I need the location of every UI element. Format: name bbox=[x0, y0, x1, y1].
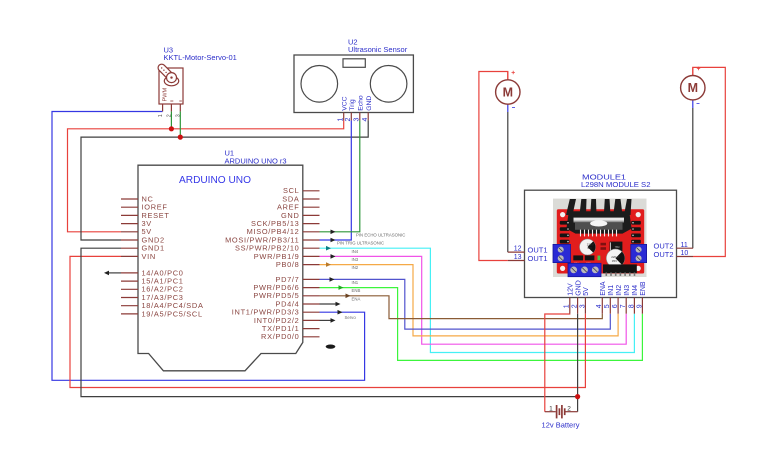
pin GND (Arduino right) bbox=[303, 214, 320, 216]
decorative? small black ellipse marker below RX pin bbox=[326, 345, 336, 349]
svg-text:L298N MODULE S2: L298N MODULE S2 bbox=[581, 180, 651, 189]
pin 2 GND (module bottom) bbox=[577, 298, 579, 314]
wire IN3 magenta: Arduino PB1/9 to module pin7 bbox=[320, 256, 627, 344]
pin GND1 (Arduino left) bbox=[121, 247, 138, 249]
svg-text:2: 2 bbox=[167, 114, 173, 117]
pin 4 ENA (module bottom) bbox=[601, 298, 603, 314]
pin 5 IN1 (module bottom) bbox=[609, 298, 611, 314]
motor M left bbox=[507, 72, 509, 81]
pin 7 IN3 (module bottom) bbox=[625, 298, 627, 314]
svg-text:19/A5/PC5/SCL: 19/A5/PC5/SCL bbox=[142, 309, 203, 318]
svg-text:3: 3 bbox=[579, 304, 586, 308]
servo U3 body bbox=[159, 68, 183, 104]
svg-text:IN1: IN1 bbox=[352, 280, 359, 285]
svg-text:PIN TRIG ULTRASONIC: PIN TRIG ULTRASONIC bbox=[337, 241, 384, 246]
wire left motor red: motor+ loop to module pin13 OUT1 bbox=[479, 72, 508, 261]
pin RESET (Arduino left) bbox=[121, 214, 138, 216]
pin 13 OUT1 (module left) bbox=[508, 260, 525, 262]
svg-text:1: 1 bbox=[564, 304, 571, 308]
svg-text:12V: 12V bbox=[568, 283, 575, 296]
svg-text:2: 2 bbox=[567, 406, 571, 413]
small IC black bbox=[610, 242, 623, 252]
pin 10 OUT2 (module right) bbox=[677, 256, 694, 258]
svg-text:PB0/8: PB0/8 bbox=[276, 260, 300, 269]
svg-text:PWM: PWM bbox=[163, 87, 169, 101]
net arrow + label ENA bbox=[346, 294, 351, 299]
svg-text:Ultrasonic Sensor: Ultrasonic Sensor bbox=[348, 45, 408, 54]
pin VIN (Arduino left) bbox=[121, 255, 138, 257]
L298N PCB photo: gray plate bbox=[553, 199, 647, 277]
svg-text:OUT2: OUT2 bbox=[653, 250, 673, 259]
pin 9 ENB (module bottom) bbox=[641, 298, 643, 314]
wire Servo net blue: Arduino PD3 around bottom-left to servo pin 1 bbox=[52, 112, 365, 381]
pin 8 IN4 (module bottom) bbox=[633, 298, 635, 314]
svg-text:8: 8 bbox=[628, 304, 635, 308]
svg-text:ENA: ENA bbox=[600, 281, 607, 296]
crystal rectangle bbox=[343, 59, 365, 68]
wire GND top rail: Ultrasonic GND to Arduino GND2 / servo pin3 bbox=[81, 120, 368, 240]
svg-text:9: 9 bbox=[636, 304, 643, 308]
pin 3 (servo) bbox=[179, 104, 181, 111]
right motor minus mark bbox=[697, 103, 700, 105]
left motor minus blue stub bbox=[507, 104, 509, 112]
wire IN4 cyan: Arduino PB2/10 to module pin8 bbox=[320, 248, 635, 352]
net arrow + label IN4 bbox=[326, 246, 331, 251]
wire Echo green: ultrasonic pin3 down to Arduino MISO/PB4/12 bbox=[320, 120, 360, 231]
bottom terminal block blue 3-screw bbox=[568, 263, 601, 276]
pin 1 (servo) bbox=[162, 104, 164, 111]
svg-text:IN4: IN4 bbox=[352, 249, 359, 254]
right resistor column bbox=[631, 221, 641, 225]
pin 3 Echo (ultrasonic) bbox=[359, 113, 361, 121]
node: battery minus junction on GND rail bbox=[575, 394, 580, 399]
svg-text:35V: 35V bbox=[612, 259, 617, 263]
svg-text:7: 7 bbox=[620, 304, 627, 308]
wire ENA brown: Arduino PD5/5 to module pin4 bbox=[320, 296, 603, 319]
pin SS/PWR/PB2/10 (Arduino right) bbox=[303, 247, 320, 249]
svg-text:4: 4 bbox=[596, 304, 603, 308]
svg-text:M: M bbox=[503, 85, 513, 99]
left motor plus mark bbox=[512, 71, 515, 74]
pin AREF (Arduino right) bbox=[303, 206, 320, 208]
corner hole bottom-left bbox=[560, 266, 565, 271]
svg-text:IN2: IN2 bbox=[616, 285, 623, 296]
module M1 box bbox=[525, 190, 677, 297]
svg-text:2: 2 bbox=[345, 118, 352, 122]
sensor U2 body bbox=[294, 55, 413, 113]
svg-text:ENA: ENA bbox=[352, 297, 361, 302]
wire GND bottom rail: Arduino GND1 to battery minus junction bbox=[81, 248, 578, 396]
pin 1 12V (module bottom) bbox=[569, 298, 571, 314]
net arrow + label IN1 bbox=[330, 277, 335, 282]
small red smd parts bbox=[601, 243, 607, 246]
pin TX/PD1/1 (Arduino right) bbox=[303, 328, 320, 330]
right motor plus mark bbox=[697, 67, 700, 70]
transducer right circle bbox=[370, 66, 407, 103]
pin 6 IN2 (module bottom) bbox=[617, 298, 619, 314]
wire left motor black: motor- down to module pin12 OUT1 bbox=[507, 112, 509, 252]
green LED bbox=[598, 256, 601, 261]
pin SCK/PB5/13 (Arduino right) bbox=[303, 223, 320, 225]
pin 3 5V (module bottom) bbox=[584, 298, 586, 314]
pin MISO/PB4/12 (Arduino right) bbox=[303, 231, 320, 233]
pin 18/A4/PC4/SDA (Arduino left) bbox=[121, 305, 138, 307]
svg-text:12v Battery: 12v Battery bbox=[542, 420, 580, 429]
servo horn base arc bbox=[164, 76, 178, 86]
servo horn dots bbox=[161, 67, 162, 68]
wire PD4/4 stub with net arrow bbox=[320, 303, 337, 305]
pin 2 Trig (ultrasonic) bbox=[350, 113, 352, 121]
net arrow + label IN3 bbox=[331, 254, 336, 259]
svg-text:Trig: Trig bbox=[349, 99, 356, 111]
pin INT0/PD2/2 (Arduino right) bbox=[303, 319, 320, 321]
wire servo pin3 to GND rail (green) bbox=[179, 111, 181, 137]
pin 16/A2/PC2 (Arduino left) bbox=[121, 288, 138, 290]
pin 12 OUT1 (module left) bbox=[508, 251, 525, 253]
svg-text:OUT1: OUT1 bbox=[528, 254, 548, 263]
svg-text:IN3: IN3 bbox=[624, 285, 631, 296]
pin 3V (Arduino left) bbox=[121, 223, 138, 225]
node: servo pin3 junction on GND rail bbox=[178, 135, 183, 140]
svg-text:KKTL-Motor-Servo-01: KKTL-Motor-Servo-01 bbox=[164, 53, 237, 62]
pin GND2 (Arduino left) bbox=[121, 239, 138, 241]
wire VIN red rail: Arduino VIN to module pin3 5V bbox=[70, 256, 585, 387]
pin NC (Arduino left) bbox=[121, 198, 138, 200]
chip leads white ticks bbox=[580, 230, 582, 237]
heatsink body bbox=[566, 211, 631, 233]
right terminal block blue bbox=[631, 244, 647, 262]
battery pin1 stub bbox=[545, 411, 556, 413]
capacitor big white 1 bbox=[580, 239, 596, 255]
right motor minus blue stub bbox=[692, 100, 694, 108]
wire right motor red: motor+ loop to module pin10 OUT2 bbox=[693, 67, 726, 256]
left terminal block blue bbox=[553, 244, 571, 262]
svg-text:GND: GND bbox=[366, 96, 373, 111]
svg-text:5: 5 bbox=[604, 304, 611, 308]
left motor minus mark bbox=[512, 107, 515, 109]
pin IOREF (Arduino left) bbox=[121, 206, 138, 208]
svg-text:3: 3 bbox=[176, 114, 182, 117]
heatsink clip silver bar bbox=[574, 218, 625, 223]
wire battery minus black: module pin2 GND down to battery pin2 bbox=[577, 314, 579, 412]
pin INT1/PWR/PD3/3 (Arduino right) bbox=[303, 311, 320, 313]
svg-text:IN4: IN4 bbox=[632, 285, 639, 296]
wire INT0/PD2 stub with net arrow bbox=[320, 319, 332, 321]
capacitor big white 2 bbox=[606, 249, 624, 267]
svg-text:12: 12 bbox=[514, 246, 522, 253]
svg-text:RX/PD0/0: RX/PD0/0 bbox=[261, 332, 299, 341]
svg-text:ARDUINO UNO: ARDUINO UNO bbox=[179, 174, 251, 186]
svg-text:2: 2 bbox=[572, 304, 579, 308]
svg-text:4: 4 bbox=[362, 118, 369, 122]
wire ENB green: Arduino PD6/6 to module pin9 bbox=[320, 288, 643, 361]
white thermal blob bbox=[590, 220, 607, 226]
wire IN1 violet: Arduino PD7/7 to module pin5 bbox=[320, 279, 611, 329]
svg-text:ENB: ENB bbox=[640, 281, 647, 296]
wire 5V rail red: Arduino 5V to Ultrasonic VCC / servo pin2 bbox=[68, 120, 344, 231]
wire servo pin2 to 5V rail (green) bbox=[170, 111, 172, 128]
svg-text:1: 1 bbox=[158, 114, 164, 117]
pin SCL (Arduino right) bbox=[303, 190, 320, 192]
svg-text:6: 6 bbox=[612, 304, 619, 308]
svg-text:GND: GND bbox=[575, 280, 582, 296]
servo horn lever bbox=[157, 63, 176, 82]
net arrow + label PIN TRIG ULTRASONIC bbox=[331, 238, 336, 243]
motor M right bbox=[692, 67, 694, 75]
svg-text:IN1: IN1 bbox=[608, 285, 615, 296]
pin PWR/PD5/5 (Arduino right) bbox=[303, 295, 320, 297]
jumper blocks bbox=[573, 255, 583, 260]
left resistor column bbox=[560, 221, 570, 225]
transducer left circle bbox=[301, 66, 338, 103]
net arrow + label ENB bbox=[339, 285, 344, 290]
svg-text:ENB: ENB bbox=[352, 288, 361, 293]
svg-text:VIN: VIN bbox=[142, 252, 156, 261]
svg-text:IN2: IN2 bbox=[352, 265, 359, 270]
svg-text:11: 11 bbox=[681, 242, 688, 249]
corner hole top-right bbox=[636, 212, 641, 217]
servo output shaft circle bbox=[167, 73, 177, 83]
op-amp U1 Arduino UNO r3 body bbox=[138, 165, 303, 371]
bottom right header black bbox=[603, 264, 637, 273]
pin SDA (Arduino right) bbox=[303, 198, 320, 200]
corner hole top-left bbox=[560, 212, 565, 217]
pin RX/PD0/0 (Arduino right) bbox=[303, 336, 320, 338]
svg-text:IN3: IN3 bbox=[352, 257, 359, 262]
pin MOSI/PWR/PB3/11 (Arduino right) bbox=[303, 239, 320, 241]
svg-text:VCC: VCC bbox=[341, 96, 348, 110]
wire battery plus red: module pin1 12V down to battery pin1 bbox=[545, 314, 570, 412]
wire 14/A0/PC0 stub with net arrow bbox=[108, 272, 121, 274]
svg-text:10: 10 bbox=[681, 250, 689, 257]
svg-text:1: 1 bbox=[338, 118, 345, 122]
net arrow + label PIN ECHO ULTRASONIC bbox=[331, 230, 336, 235]
pin PD7/7 (Arduino right) bbox=[303, 278, 320, 280]
pin 11 OUT2 (module right) bbox=[677, 247, 694, 249]
pin 14/A0/PC0 (Arduino left) bbox=[121, 272, 138, 274]
node: servo pin2 junction on 5V rail bbox=[169, 126, 174, 131]
svg-text:3: 3 bbox=[354, 118, 361, 122]
svg-text:Echo: Echo bbox=[357, 95, 364, 111]
svg-text:1: 1 bbox=[549, 406, 553, 413]
chip body under clip bbox=[575, 222, 623, 230]
pin 1 VCC (ultrasonic) bbox=[343, 113, 345, 121]
svg-text:78M: 78M bbox=[615, 246, 620, 249]
pin 17/A3/PC3 (Arduino left) bbox=[121, 297, 138, 299]
svg-text:13: 13 bbox=[514, 254, 522, 261]
pin 15/A1/PC1 (Arduino left) bbox=[121, 280, 138, 282]
battery plates bbox=[556, 405, 558, 418]
pin 19/A5/PC5/SCL (Arduino left) bbox=[121, 313, 138, 315]
pin PD4/4 (Arduino right) bbox=[303, 303, 320, 305]
svg-text:PIN ECHO ULTRASONIC: PIN ECHO ULTRASONIC bbox=[356, 232, 405, 237]
net arrow + label IN2 bbox=[326, 262, 331, 267]
corner hole bottom-right bbox=[636, 266, 641, 271]
pin 5V (Arduino left) bbox=[121, 231, 138, 233]
svg-text:M: M bbox=[688, 81, 698, 95]
pin 2 (servo) bbox=[170, 104, 172, 111]
wire right motor black: motor- down to module pin11 OUT2 bbox=[692, 108, 694, 248]
svg-text:5V: 5V bbox=[583, 287, 590, 296]
battery pin2 stub bbox=[565, 411, 578, 413]
heatsink fins bbox=[566, 199, 632, 215]
pin 4 GND (ultrasonic) bbox=[367, 113, 369, 121]
svg-text:ARDUINO UNO r3: ARDUINO UNO r3 bbox=[225, 156, 287, 165]
wire IN2 orange: Arduino PB0/8 to module pin6 bbox=[320, 265, 619, 336]
pin PWR/PD6/6 (Arduino right) bbox=[303, 287, 320, 289]
svg-text:Servo: Servo bbox=[345, 315, 357, 320]
pin PB0/8 (Arduino right) bbox=[303, 264, 320, 266]
svg-text:35V: 35V bbox=[587, 246, 592, 250]
servo pin polarity marks bbox=[170, 100, 173, 102]
net arrow + label Servo bbox=[338, 310, 343, 315]
pin PWR/PB1/9 (Arduino right) bbox=[303, 255, 320, 257]
L298N PCB red board bbox=[557, 209, 644, 273]
wire Trig blue: ultrasonic pin2 down to Arduino MOSI/PB3/11 bbox=[320, 120, 352, 240]
